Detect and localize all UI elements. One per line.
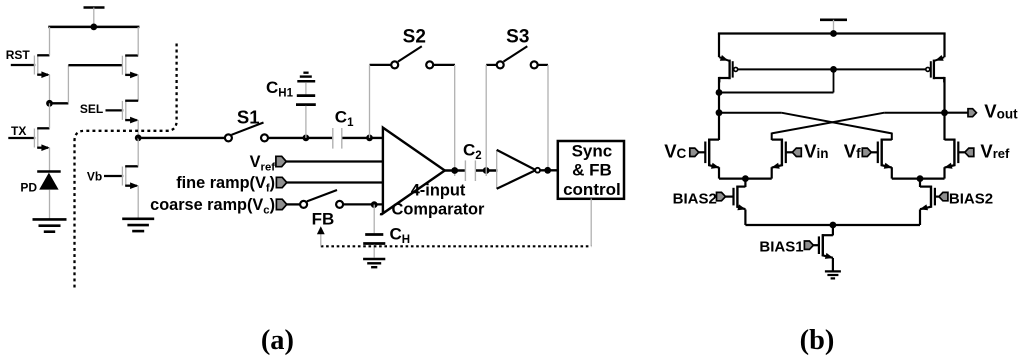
block Sync & FB control — [558, 141, 624, 199]
wire Vb source to ground — [137, 186, 139, 219]
node left output junction — [716, 109, 723, 116]
svg-text:Sync: Sync — [572, 141, 613, 160]
wire left drain column — [718, 77, 720, 140]
transistor SF (source follower NMOS) — [122, 27, 138, 78]
input coarse ramp V_c (label, connector, wire) — [150, 196, 300, 217]
wire S2 right riser — [454, 65, 456, 176]
svg-text:BIAS2: BIAS2 — [949, 191, 993, 208]
transistor MB1 (BIAS1 tail NMOS) — [759, 225, 833, 271]
svg-text:BIAS1: BIAS1 — [759, 238, 803, 255]
wire SF source to SEL drain — [137, 75, 139, 101]
junction S2 left tap — [366, 135, 373, 142]
wire bottom rail (comparator) — [745, 224, 920, 226]
wire RST source to FD node — [49, 75, 51, 104]
junction C_H1 tap — [303, 135, 310, 142]
capacitor C_H1 (hold cap with top ground) — [266, 73, 316, 138]
wire S1 to C1 — [268, 137, 332, 139]
transistor M4 (V_ref input NMOS) — [920, 139, 1010, 179]
svg-text:fine ramp(Vf): fine ramp(Vf) — [176, 174, 275, 195]
junction PMOS gates — [830, 66, 837, 73]
transistor M3 (V_f input NMOS) — [844, 139, 920, 179]
ground under BIAS1 — [825, 271, 841, 278]
transistor MP1 (left PMOS load, diode-connected) — [719, 34, 738, 83]
power VDD supply (comparator) — [820, 20, 847, 34]
svg-text:4-input: 4-input — [411, 181, 466, 199]
svg-text:Vb: Vb — [87, 169, 102, 183]
node pixel output junction — [135, 135, 142, 142]
svg-text:SEL: SEL — [80, 102, 103, 116]
wire S3 left riser — [485, 65, 487, 176]
wire PMOS gate net — [719, 69, 926, 92]
transistor RST (reset NMOS) — [6, 27, 50, 78]
wire comparator output to C2 — [444, 169, 465, 171]
svg-text:S3: S3 — [506, 26, 529, 47]
photodiode PD — [20, 148, 60, 219]
capacitor C1 — [333, 108, 354, 149]
svg-text:TX: TX — [11, 124, 26, 138]
input fine ramp V_f (label, connector, wire) — [176, 174, 383, 195]
junction comparator output — [451, 167, 458, 174]
node right tail junction — [917, 175, 924, 182]
svg-text:S2: S2 — [403, 26, 426, 47]
wire control block to FB (drop) — [590, 199, 592, 247]
power VDD supply (pixel) — [84, 8, 105, 27]
wire S2 left riser — [369, 65, 371, 138]
wire VDD rail (pixel) — [48, 26, 139, 29]
wire pixel node to switch S1 — [138, 137, 225, 139]
node right output junction (V_out) — [941, 109, 948, 116]
junction C_H tap — [371, 201, 378, 208]
label (a) — [261, 325, 294, 356]
op-amp U1 (4-input comparator) — [380, 128, 485, 219]
output V_out (wire, connector, label) — [945, 101, 1019, 122]
svg-text:BIAS2: BIAS2 — [673, 191, 717, 208]
svg-text:(a): (a) — [261, 325, 294, 356]
wire FB control (dashed) — [321, 245, 591, 247]
transistor M1 (V_C input NMOS) — [664, 139, 745, 179]
FB control arrow — [317, 226, 325, 246]
dashed pixel boundary — [75, 43, 177, 288]
inverter U2 — [497, 150, 540, 189]
ground under C_H — [363, 259, 385, 267]
junction bottom rail — [830, 222, 837, 229]
transistor SEL (row select NMOS) — [80, 101, 139, 124]
svg-text:control: control — [563, 180, 621, 199]
node FD junction — [46, 100, 53, 107]
wire C1 to comparator input 1 — [342, 137, 383, 139]
svg-text:FB: FB — [312, 209, 335, 228]
capacitor C_H (with ground) — [363, 205, 410, 258]
wire cross-couple A (left node to V_f drain) — [719, 113, 892, 140]
junction MP1 drain / gate feedback — [716, 89, 723, 96]
transistor MP2 (right PMOS load) — [926, 34, 945, 83]
svg-text:S1: S1 — [237, 107, 260, 128]
wire cross-couple B (right node to V_in drain) — [772, 113, 945, 140]
wire right drain column — [943, 77, 945, 140]
wire inverter to control block — [540, 169, 559, 171]
junction inverter output — [544, 167, 551, 174]
wire C2 to inverter — [476, 169, 498, 171]
label (b) — [800, 325, 835, 356]
input V_ref (label, connector, wire) — [250, 153, 384, 174]
node left tail junction — [742, 175, 749, 182]
wire VDD rail (comparator) — [718, 32, 946, 34]
junction S3 left tap — [483, 167, 490, 174]
svg-text:Comparator: Comparator — [392, 200, 486, 218]
junction VDD rail (comparator) — [830, 30, 837, 37]
capacitor C2 — [463, 141, 482, 182]
svg-text:PD: PD — [20, 181, 37, 195]
switch FB (feedback switch) — [300, 190, 383, 228]
transistor M2 (V_in input NMOS) — [745, 139, 828, 179]
svg-text:RST: RST — [6, 48, 31, 62]
ground under Vb — [122, 219, 154, 231]
svg-text:(b): (b) — [800, 325, 835, 356]
wire FD to SF gate — [50, 65, 123, 103]
ground under PD — [33, 219, 67, 231]
wire SEL source to pixel output node — [137, 120, 139, 138]
svg-text:coarse ramp(Vc): coarse ramp(Vc) — [150, 196, 275, 217]
switch S3 — [486, 26, 548, 68]
switch S1 — [225, 107, 268, 142]
transistor MB2L (left BIAS2 NMOS cascode) — [673, 179, 746, 225]
junction VDD rail / supply — [90, 24, 97, 31]
transistor MB2R (right BIAS2 NMOS cascode) — [920, 179, 994, 225]
wire S3 right riser — [547, 65, 549, 171]
switch S2 — [370, 26, 456, 68]
transistor TX (transfer gate NMOS) — [8, 103, 50, 151]
transistor Vb (bias current NMOS) — [87, 138, 139, 189]
svg-text:& FB: & FB — [572, 161, 612, 180]
